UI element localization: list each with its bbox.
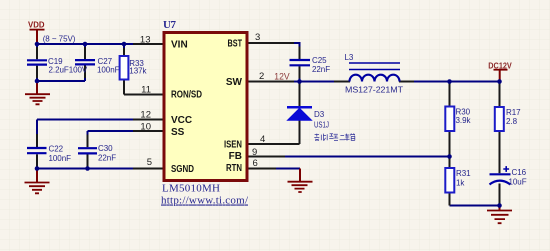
svg-text:SS: SS (171, 127, 185, 138)
svg-text:22nF: 22nF (98, 154, 116, 163)
svg-text:R30: R30 (456, 107, 471, 116)
svg-text:C30: C30 (98, 144, 113, 153)
svg-text:13: 13 (140, 35, 151, 46)
svg-text:2.2uF100V: 2.2uF100V (49, 66, 88, 75)
svg-text:C22: C22 (49, 144, 64, 153)
svg-text:(8 ~ 75V): (8 ~ 75V) (43, 34, 76, 43)
svg-text:3: 3 (255, 32, 260, 43)
svg-text:12: 12 (140, 109, 151, 120)
svg-text:C25: C25 (312, 56, 327, 65)
svg-text:MS127-221MT: MS127-221MT (345, 86, 403, 95)
svg-text:10: 10 (140, 121, 151, 132)
svg-text:VCC: VCC (171, 115, 192, 126)
svg-text:RON/SD: RON/SD (171, 89, 202, 100)
svg-text:4: 4 (260, 134, 265, 145)
svg-text:12V: 12V (274, 71, 289, 81)
svg-text:2: 2 (259, 71, 264, 82)
svg-text:1k: 1k (456, 179, 465, 188)
svg-text:http://www.ti.com/: http://www.ti.com/ (161, 195, 249, 207)
svg-text:DC12V: DC12V (488, 61, 512, 71)
svg-text:6: 6 (253, 158, 258, 169)
svg-text:3.9k: 3.9k (456, 116, 472, 125)
svg-text:10uF: 10uF (509, 178, 527, 187)
svg-text:BST: BST (228, 38, 243, 49)
svg-text:100nF: 100nF (97, 65, 120, 74)
svg-text:RTN: RTN (226, 163, 242, 174)
svg-text:D3: D3 (314, 110, 325, 119)
svg-text:22nF: 22nF (312, 65, 330, 74)
svg-text:2.8: 2.8 (506, 117, 518, 126)
svg-text:ISEN: ISEN (224, 139, 242, 150)
svg-text:R31: R31 (456, 169, 471, 178)
svg-text:VDD: VDD (28, 19, 45, 29)
svg-text:137k: 137k (129, 67, 147, 76)
svg-text:9: 9 (252, 147, 257, 158)
svg-text:R17: R17 (506, 108, 521, 117)
svg-text:US1J: US1J (314, 121, 329, 130)
svg-text:SGND: SGND (171, 164, 194, 175)
svg-text:SW: SW (226, 77, 243, 88)
svg-text:C16: C16 (512, 168, 527, 177)
svg-text:11: 11 (141, 84, 151, 95)
svg-text:100nF: 100nF (49, 154, 72, 163)
svg-text:U7: U7 (163, 19, 177, 31)
svg-text:VIN: VIN (171, 39, 188, 50)
svg-text:5: 5 (147, 157, 152, 168)
svg-text:LM5010MH: LM5010MH (162, 183, 220, 195)
svg-text:FB: FB (229, 151, 242, 162)
svg-text:L3: L3 (345, 53, 354, 62)
